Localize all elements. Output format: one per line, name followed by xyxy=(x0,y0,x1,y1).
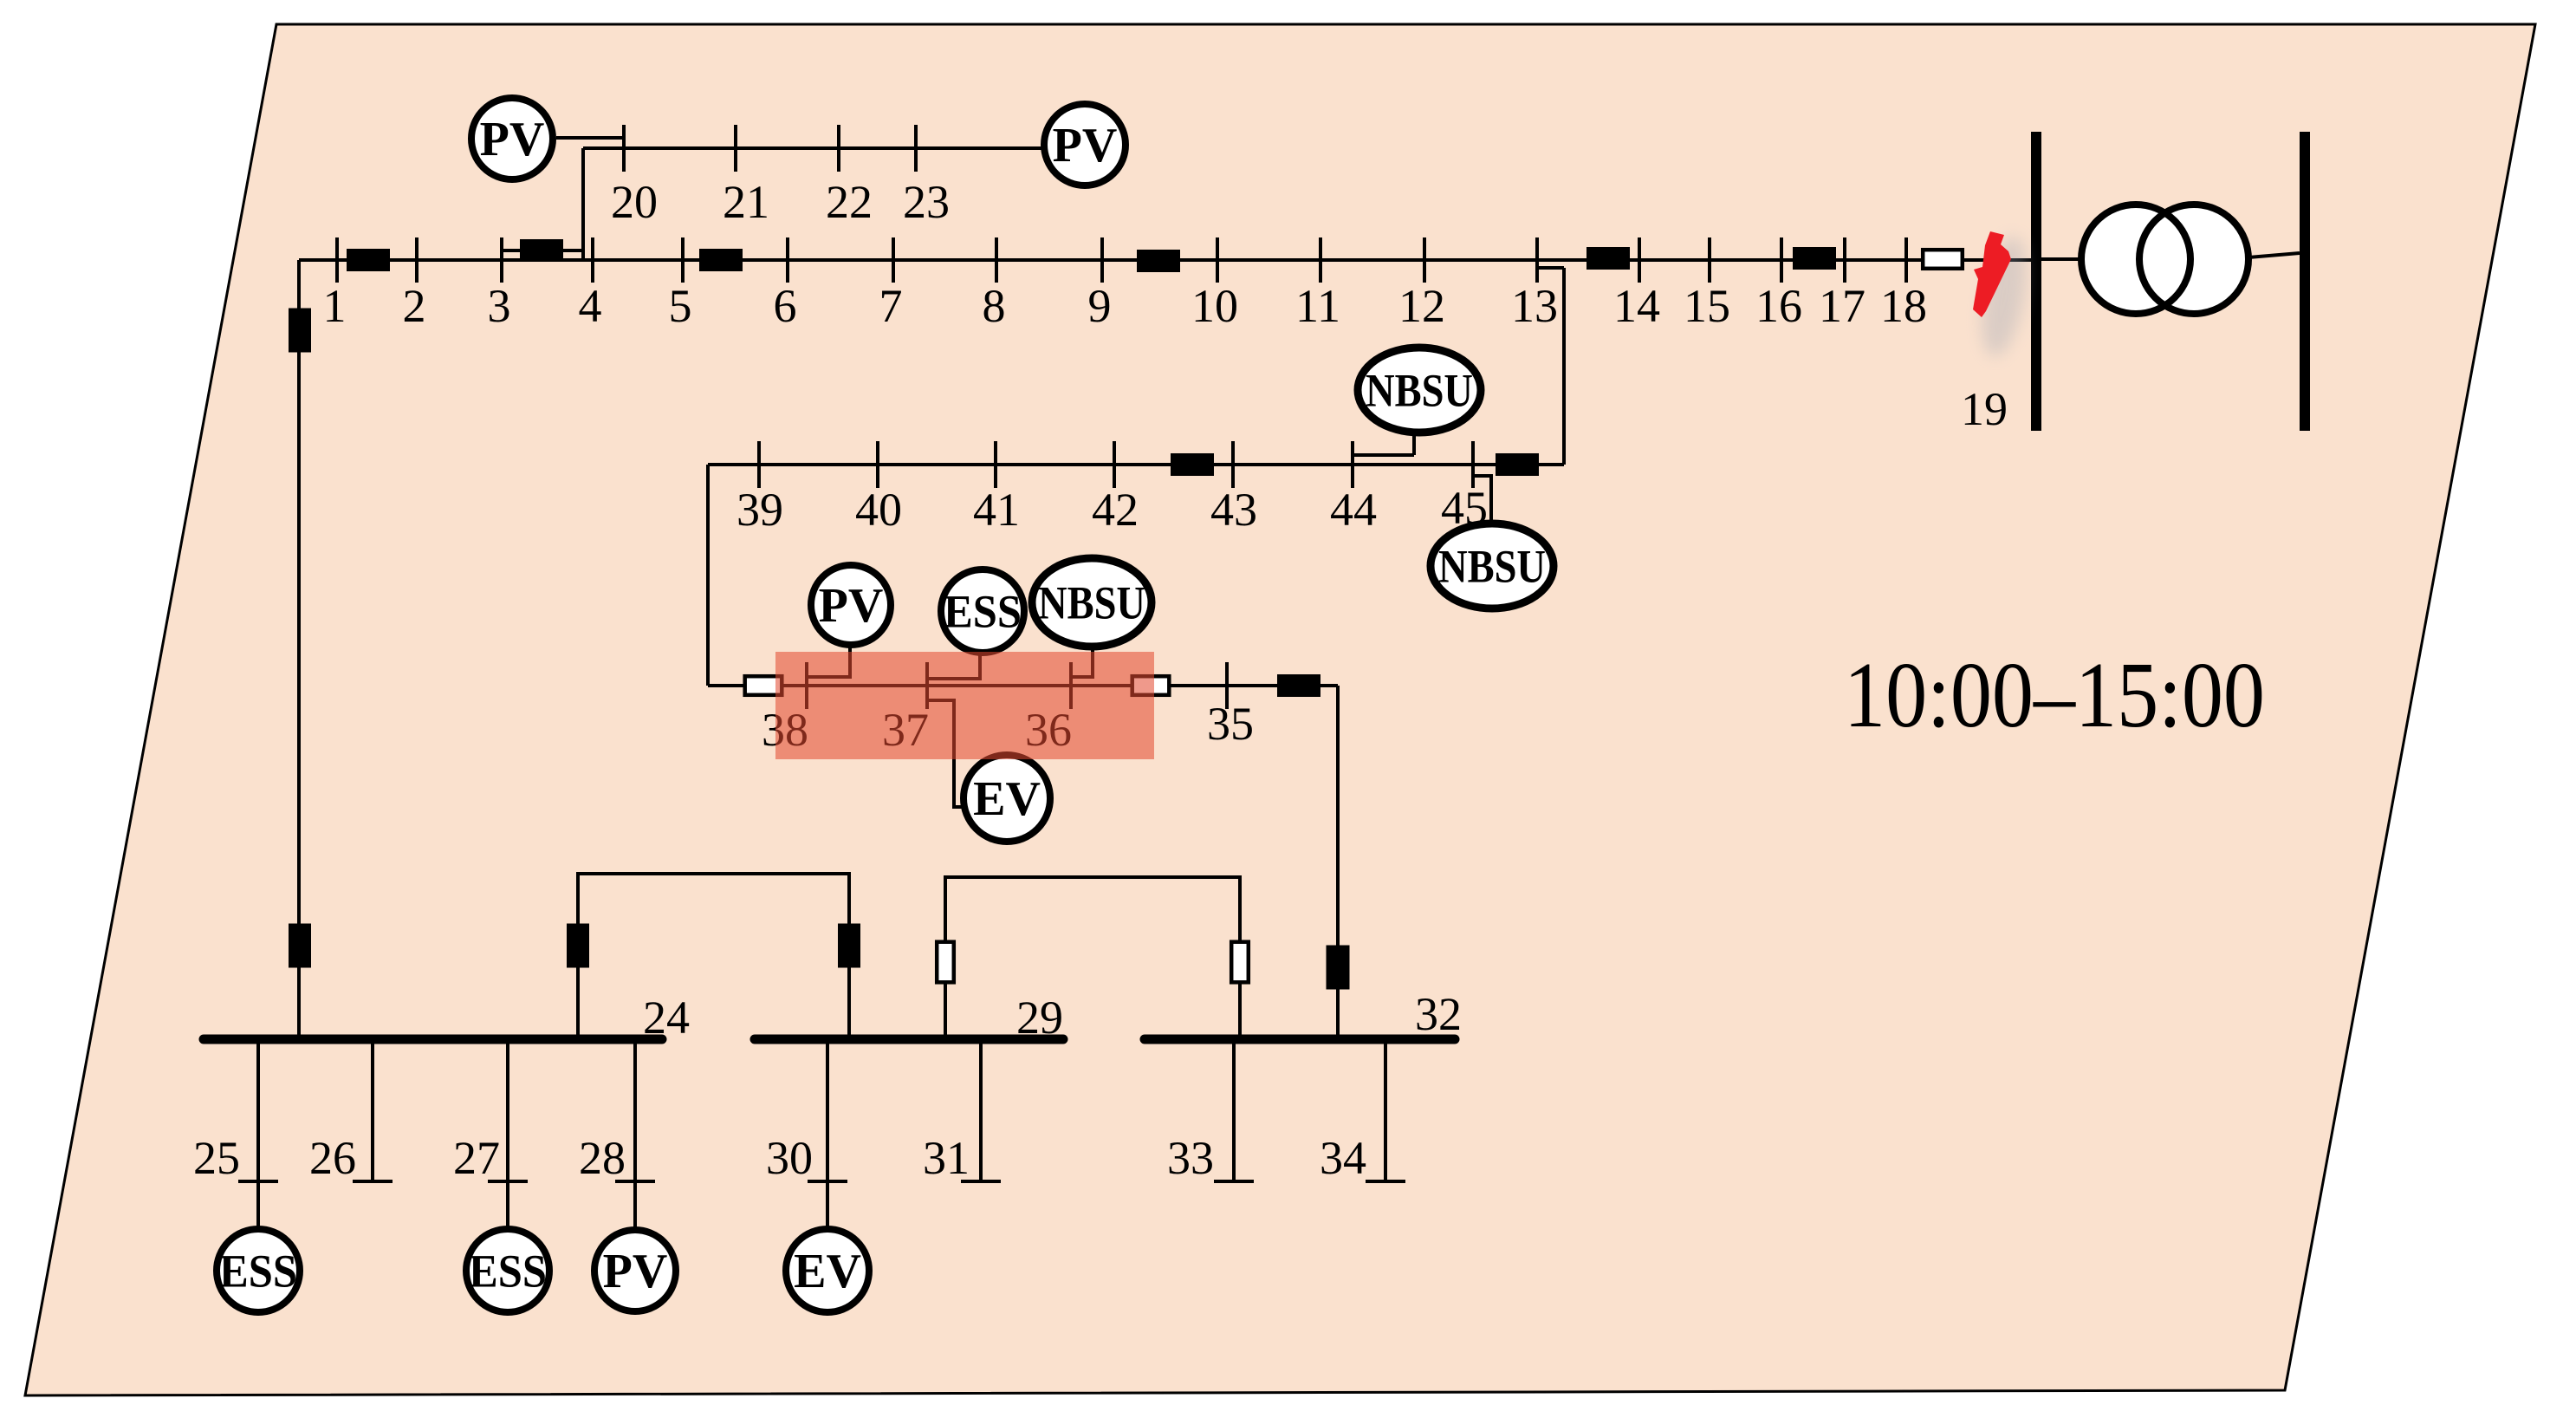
switch open right of bus 36 xyxy=(1132,676,1170,695)
svg-text:5: 5 xyxy=(669,280,692,332)
switch closed between bus42-43 xyxy=(1171,453,1214,476)
wire main feeder buses 1-18 xyxy=(299,258,1937,262)
svg-text:23: 23 xyxy=(903,176,950,228)
svg-text:30: 30 xyxy=(766,1132,813,1184)
node bus 22 xyxy=(837,125,840,172)
svg-text:22: 22 xyxy=(826,176,873,228)
svg-text:11: 11 xyxy=(1295,280,1340,332)
wire PV1 to bus 20 xyxy=(556,136,624,140)
generator PV at bus 38 xyxy=(811,565,891,645)
unit EV at bus 37 xyxy=(964,755,1050,842)
transformer T1 winding 1 xyxy=(2081,205,2190,314)
svg-text:35: 35 xyxy=(1207,698,1254,750)
wire load 26 xyxy=(371,1044,374,1181)
switch open on jumper at bus29 side xyxy=(937,942,954,983)
wire bus19 bar to transformer xyxy=(2041,257,2082,261)
wire load 33 xyxy=(1232,1044,1236,1181)
transformer T1 winding 2 xyxy=(2139,205,2248,314)
load symbol load 30 with EV xyxy=(808,1180,847,1183)
node bus 37 xyxy=(925,662,929,709)
wire NBSU2 elbow from bus45 xyxy=(1473,476,1491,524)
svg-text:28: 28 xyxy=(579,1132,626,1184)
node bus 17 xyxy=(1843,237,1846,283)
generator PV at bus 20 (left) xyxy=(471,98,553,179)
svg-text:PV: PV xyxy=(603,1245,668,1298)
load symbol load 34 xyxy=(1366,1180,1405,1183)
svg-text:41: 41 xyxy=(973,484,1020,536)
bus 19 bar (left) xyxy=(2031,132,2041,431)
wire riser feeder20-23 to main line xyxy=(581,148,585,260)
wire PV drop to bus 38 xyxy=(807,645,850,677)
bus 24 bar xyxy=(204,1035,662,1044)
load symbol load 25 with ESS xyxy=(238,1180,278,1183)
svg-text:10: 10 xyxy=(1191,280,1238,332)
svg-text:39: 39 xyxy=(736,484,783,536)
wire ESS drop to bus 37 xyxy=(927,653,980,679)
svg-text:PV: PV xyxy=(480,113,545,166)
wire open-switch to bus-19 bar xyxy=(1963,258,2031,262)
switch closed between bus5-6 xyxy=(699,249,743,271)
svg-text:PV: PV xyxy=(1053,119,1118,172)
svg-text:16: 16 xyxy=(1755,280,1802,332)
wire jumper bus29 to bus32 xyxy=(945,877,1240,1035)
svg-text:8: 8 xyxy=(983,280,1006,332)
wire load 27 with ESS xyxy=(506,1044,509,1229)
wire load 28 with PV xyxy=(633,1044,637,1229)
svg-text:18: 18 xyxy=(1880,280,1927,332)
node bus 35 xyxy=(1225,662,1229,709)
svg-text:PV: PV xyxy=(819,579,884,633)
node bus 43 xyxy=(1231,441,1235,488)
node bus 1 xyxy=(335,237,339,283)
wire load 31 xyxy=(979,1044,983,1181)
switch closed on raised branch bus3-4 xyxy=(520,239,563,262)
generator PV below bus 28 xyxy=(594,1230,676,1311)
node bus 4 xyxy=(591,237,594,283)
switch closed right of bus45 xyxy=(1496,453,1539,476)
node bus 8 xyxy=(995,237,998,283)
wire to left open switch xyxy=(708,684,743,687)
wire feeder buses 20-23 xyxy=(583,146,1048,150)
load symbol load 31 xyxy=(961,1180,1001,1183)
load symbol load 27 with ESS xyxy=(488,1180,528,1183)
node bus 41 xyxy=(994,441,997,488)
bus 29 bar xyxy=(755,1035,1063,1044)
wire load 34 xyxy=(1384,1044,1387,1181)
svg-text:29: 29 xyxy=(1016,992,1063,1044)
svg-text:44: 44 xyxy=(1330,484,1377,536)
wire NBSU drop to bus 36 xyxy=(1071,647,1093,677)
svg-text:12: 12 xyxy=(1398,280,1445,332)
node bus 15 xyxy=(1708,237,1711,283)
svg-text:20: 20 xyxy=(611,176,658,228)
node bus 7 xyxy=(892,237,895,283)
wire bus36-35 xyxy=(1171,684,1277,687)
wire NBSU1 drop xyxy=(1412,433,1416,455)
svg-text:15: 15 xyxy=(1684,280,1730,332)
svg-text:43: 43 xyxy=(1210,484,1257,536)
svg-text:NBSU: NBSU xyxy=(1038,576,1145,628)
svg-text:3: 3 xyxy=(488,280,511,332)
switch closed right of bus 35 xyxy=(1277,674,1320,697)
wire feeder39 left drop to bus38 line xyxy=(706,465,710,686)
switch closed on riser above bus24 bar xyxy=(289,924,311,968)
switch open on jumper at bus32 side xyxy=(1231,942,1249,983)
svg-text:34: 34 xyxy=(1320,1132,1366,1184)
svg-text:32: 32 xyxy=(1415,988,1462,1040)
node bus 36 xyxy=(1069,662,1073,709)
node bus 39 xyxy=(757,441,761,488)
switch closed between bus16-17 xyxy=(1793,247,1836,270)
svg-text:19: 19 xyxy=(1961,383,2008,435)
svg-text:4: 4 xyxy=(579,280,602,332)
svg-text:2: 2 xyxy=(403,280,426,332)
svg-text:7: 7 xyxy=(879,280,903,332)
svg-text:21: 21 xyxy=(723,176,769,228)
svg-text:9: 9 xyxy=(1088,280,1112,332)
switch closed between bus1-2 xyxy=(347,249,390,271)
node bus 13 xyxy=(1535,237,1539,283)
wire load 25 with ESS xyxy=(256,1044,260,1229)
unit ESS below bus 25 xyxy=(217,1229,300,1312)
node bus 18 xyxy=(1904,237,1908,283)
node bus 16 xyxy=(1780,237,1783,283)
grid bus bar (right) xyxy=(2300,132,2310,431)
wire feeder buses 39-45 xyxy=(708,463,1496,466)
wire feeder right end xyxy=(1538,463,1564,466)
svg-text:EV: EV xyxy=(973,772,1041,826)
wire buses 38-36 xyxy=(783,684,1132,687)
node bus 11 xyxy=(1319,237,1322,283)
svg-text:14: 14 xyxy=(1613,280,1660,332)
node bus 2 xyxy=(415,237,419,283)
svg-text:25: 25 xyxy=(193,1132,240,1184)
node bus 14 xyxy=(1638,237,1641,283)
svg-text:27: 27 xyxy=(453,1132,500,1184)
node bus 38 xyxy=(805,662,808,709)
unit NBSU at bus 36 xyxy=(1032,558,1152,647)
svg-text:ESS: ESS xyxy=(219,1245,297,1297)
switch closed between bus9-10 xyxy=(1137,250,1180,272)
svg-text:33: 33 xyxy=(1167,1132,1214,1184)
fault shadow xyxy=(1974,233,2034,360)
wire riser bus1 to bus24 bar xyxy=(297,260,301,1035)
wire jumper bus24 to bus29 xyxy=(578,874,849,1035)
node bus 45 xyxy=(1471,441,1475,488)
unit NBSU at bus 44 xyxy=(1358,348,1481,433)
switch open left of bus 38 xyxy=(745,676,782,695)
svg-text:EV: EV xyxy=(794,1245,861,1298)
highlighted isolated zone around buses 36-38 xyxy=(775,652,1154,759)
unit NBSU at bus 45 xyxy=(1431,524,1554,608)
node bus 44 xyxy=(1351,441,1354,488)
unit ESS below bus 27 xyxy=(466,1229,549,1312)
load symbol load 28 with PV xyxy=(615,1180,655,1183)
fault lightning bolt between open switch and bus 19 xyxy=(1973,231,2011,317)
generator PV at bus 23 (right) xyxy=(1044,104,1126,185)
node bus 9 xyxy=(1100,237,1104,283)
switch closed on jumper at bus24 side xyxy=(567,924,589,968)
wire to corner xyxy=(1320,684,1338,687)
svg-text:ESS: ESS xyxy=(469,1245,547,1297)
svg-text:17: 17 xyxy=(1819,280,1865,332)
load symbol load 26 xyxy=(353,1180,393,1183)
switch open between bus18 and bus19 xyxy=(1923,250,1963,269)
svg-text:42: 42 xyxy=(1092,484,1139,536)
wire load 30 with EV xyxy=(826,1044,829,1229)
node bus 3 xyxy=(500,237,503,283)
node bus 20 xyxy=(622,125,626,172)
wire bus35 riser down to bus32 bar xyxy=(1336,686,1340,1035)
node bus 5 xyxy=(681,237,685,283)
switch closed on jumper at bus29 side xyxy=(838,924,860,968)
svg-text:24: 24 xyxy=(643,992,690,1044)
unit EV below bus 30 xyxy=(786,1229,869,1312)
node bus 23 xyxy=(914,125,918,172)
svg-text:13: 13 xyxy=(1511,280,1558,332)
svg-text:10:00–15:00: 10:00–15:00 xyxy=(1844,644,2265,747)
wire EV drop from bus 37 xyxy=(927,700,964,807)
wire transformer to grid bar xyxy=(2248,253,2300,257)
svg-text:ESS: ESS xyxy=(944,585,1022,637)
svg-text:NBSU: NBSU xyxy=(1366,364,1473,416)
svg-text:NBSU: NBSU xyxy=(1438,540,1546,592)
node bus 12 xyxy=(1423,237,1426,283)
load symbol load 33 xyxy=(1214,1180,1254,1183)
switch closed on riser below bus 1 xyxy=(289,309,311,353)
node bus 40 xyxy=(876,441,879,488)
bus 32 bar xyxy=(1145,1035,1455,1044)
switch closed on riser above bus32 bar xyxy=(1327,946,1350,990)
svg-text:1: 1 xyxy=(323,280,347,332)
svg-text:6: 6 xyxy=(774,280,797,332)
wire bus13 drop to feeder 39-45 xyxy=(1562,268,1566,465)
svg-text:40: 40 xyxy=(855,484,902,536)
wire NBSU1 elbow to bus44 xyxy=(1353,453,1414,457)
node bus 10 xyxy=(1216,237,1219,283)
svg-text:26: 26 xyxy=(309,1132,356,1184)
unit ESS at bus 37 xyxy=(941,569,1024,653)
node bus 6 xyxy=(786,237,789,283)
wire bus13 elbow xyxy=(1538,266,1564,270)
node bus 21 xyxy=(734,125,737,172)
wire raised branch bus3 to riser xyxy=(502,249,583,252)
node bus 42 xyxy=(1113,441,1116,488)
svg-text:31: 31 xyxy=(923,1132,970,1184)
switch closed between bus13-14 xyxy=(1586,247,1630,270)
